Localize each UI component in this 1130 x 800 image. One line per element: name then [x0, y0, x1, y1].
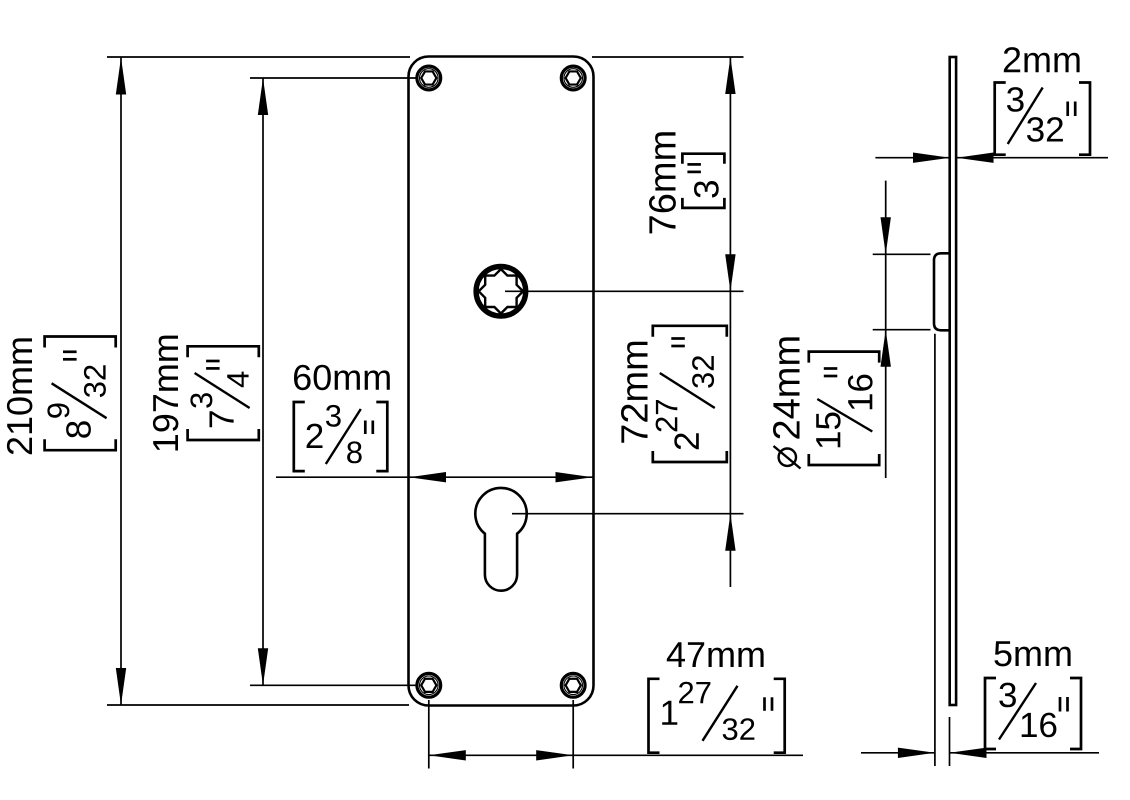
dimension 60mm line — [276, 476, 593, 478]
screw bottom-right — [561, 673, 585, 697]
label 5mm — [994, 641, 1070, 666]
spindle hole star — [479, 269, 523, 313]
dimension 5mm line — [861, 752, 935, 754]
fraction 8 9/32 in — [45, 337, 116, 451]
dimension 76mm / 72mm line — [729, 57, 731, 588]
label 197mm — [153, 336, 179, 451]
label 2mm — [1004, 47, 1080, 72]
front view plate outline — [409, 57, 594, 706]
dimension 47mm line — [429, 754, 803, 756]
label 72mm — [621, 342, 648, 443]
screw bottom-left — [417, 673, 441, 697]
fraction 1 27/32 in — [649, 679, 785, 753]
label 210mm — [7, 338, 33, 454]
extension line bottom screw center — [250, 684, 416, 686]
dimension diameter 24mm line — [885, 181, 887, 478]
label diameter 24mm — [773, 337, 801, 468]
spindle hole ring — [476, 267, 526, 317]
fraction 7 3/4 in — [188, 346, 259, 440]
fraction 2 27/32 in — [653, 326, 727, 462]
boss extension lines — [873, 253, 931, 255]
dimension 197mm line — [262, 78, 264, 685]
extension line plate bottom — [107, 704, 409, 706]
label 76mm — [649, 132, 676, 233]
extension line top screw center — [250, 77, 416, 79]
screw top-left — [417, 66, 441, 90]
fraction 15/16 in — [809, 352, 879, 465]
label 47mm — [667, 642, 764, 667]
fraction 3 in — [682, 154, 724, 208]
fraction 2 3/8 in — [294, 402, 388, 471]
side view plate — [950, 57, 956, 705]
screw top-right — [561, 66, 585, 90]
dimension 2mm — [875, 157, 950, 159]
leader star center — [505, 290, 744, 292]
47mm extension lines — [428, 700, 430, 769]
extension line plate top right — [592, 56, 744, 58]
euro cylinder keyhole — [475, 488, 526, 591]
fraction 3/32 in — [995, 83, 1090, 155]
fraction 3/16 in — [985, 678, 1081, 749]
5mm extension lines — [934, 334, 936, 766]
extension line plate top left — [107, 56, 410, 58]
label 60mm — [294, 365, 390, 391]
dimension 210mm line — [120, 58, 122, 706]
side view boss — [934, 253, 951, 330]
leader keyhole center — [512, 513, 744, 515]
